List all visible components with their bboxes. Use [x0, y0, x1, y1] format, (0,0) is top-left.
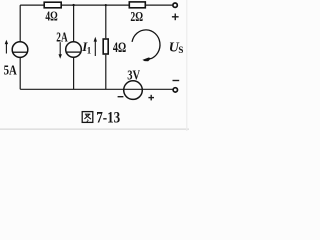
svg-text:5A: 5A	[4, 63, 18, 78]
svg-text:3V: 3V	[127, 69, 140, 84]
svg-text:4Ω: 4Ω	[113, 40, 126, 56]
svg-text:7-13: 7-13	[96, 110, 120, 127]
svg-text:S: S	[178, 45, 183, 55]
svg-text:1: 1	[87, 45, 92, 55]
svg-text:2A: 2A	[56, 31, 68, 46]
svg-text:2Ω: 2Ω	[130, 10, 143, 25]
svg-text:4Ω: 4Ω	[45, 10, 57, 25]
